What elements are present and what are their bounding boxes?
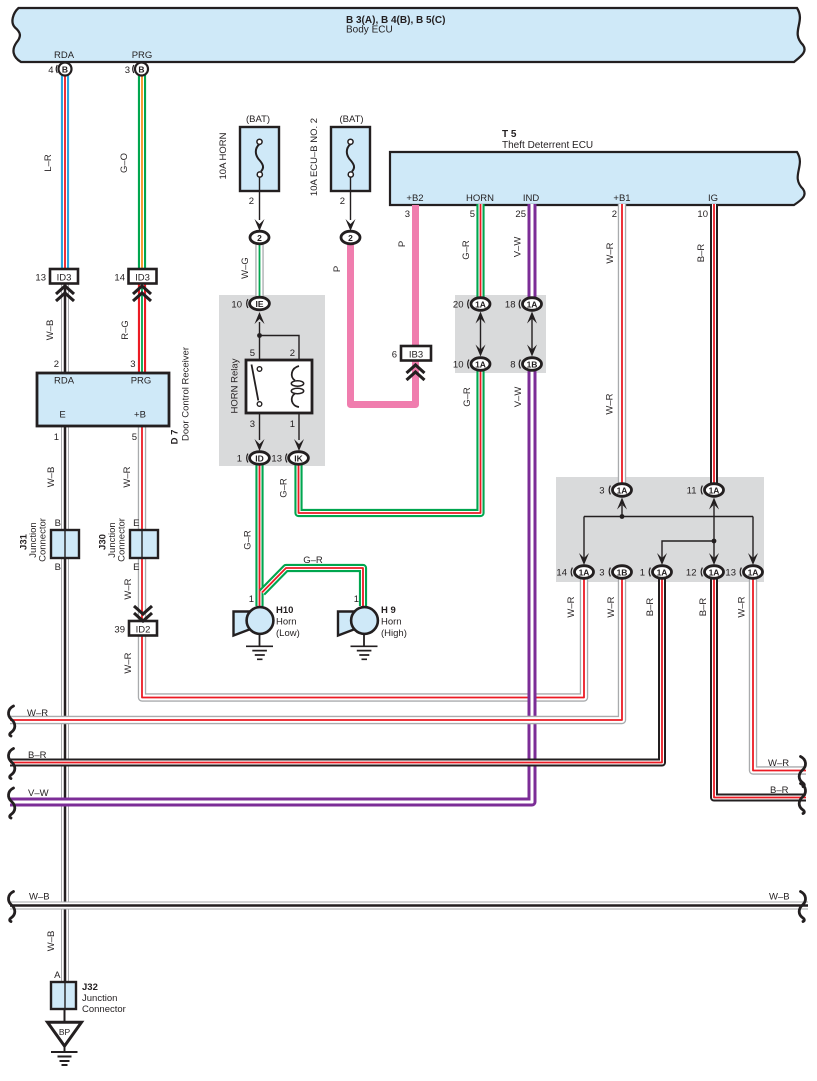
svg-text:2: 2 <box>612 209 617 220</box>
horn H10 body <box>247 607 274 634</box>
svg-text:5: 5 <box>132 432 137 443</box>
svg-text:PRG: PRG <box>132 50 153 61</box>
svg-text:P: P <box>332 266 343 272</box>
svg-text:10: 10 <box>453 360 464 371</box>
relay internal node branch <box>260 336 300 369</box>
svg-text:1B: 1B <box>617 568 628 578</box>
svg-text:RDA: RDA <box>54 376 75 387</box>
svg-text:W–R: W–R <box>123 652 134 673</box>
arrow into fuse1 oval 2 <box>255 219 265 231</box>
svg-text:W–B: W–B <box>769 892 790 903</box>
svg-text:E: E <box>133 562 139 573</box>
horn H9 ground lead <box>363 633 365 646</box>
connector oval 20 1A <box>471 298 490 311</box>
junction 11 1A lead crossing bus to node <box>713 505 715 541</box>
svg-text:ID3: ID3 <box>57 273 72 284</box>
wire G-R (10 1A down, across, up to relay IK) <box>299 368 481 513</box>
svg-text:1: 1 <box>640 568 645 579</box>
svg-text:2: 2 <box>290 348 295 359</box>
svg-text:A: A <box>54 970 61 981</box>
svg-text:2: 2 <box>249 196 254 207</box>
arrow into 8 1B <box>527 345 537 357</box>
svg-text:G–R: G–R <box>461 240 472 260</box>
svg-text:V–W: V–W <box>28 788 49 799</box>
connector box 13 ID3 <box>50 269 78 284</box>
svg-text:1: 1 <box>354 594 359 605</box>
wire L-R (RDA to ID3) <box>61 75 69 270</box>
connector oval 10 1A <box>471 358 490 371</box>
svg-text:W–R: W–R <box>606 596 617 617</box>
svg-text:11: 11 <box>687 486 697 497</box>
svg-text:Connector: Connector <box>38 518 49 562</box>
svg-text:BP: BP <box>59 1027 71 1037</box>
connector oval 2 (fuse HORN) <box>250 231 269 244</box>
junction lead to 13 1A <box>752 517 754 559</box>
svg-text:Horn: Horn <box>276 617 297 628</box>
wire W-R (T5 +B1 pin 2 to 3 1A) <box>618 204 626 486</box>
svg-text:W–R: W–R <box>768 758 789 769</box>
svg-text:W–B: W–B <box>46 931 57 952</box>
svg-text:2: 2 <box>348 233 353 243</box>
svg-text:V–W: V–W <box>513 237 524 258</box>
svg-text:1: 1 <box>249 594 254 605</box>
arrow into 3 1A <box>617 498 627 510</box>
arrow into 1 1A <box>657 553 667 565</box>
wire B-R (12 1A down to right break) <box>714 579 806 798</box>
wire fuse2 pin 2 lead <box>350 180 352 220</box>
svg-text:H10: H10 <box>276 605 293 616</box>
svg-text:IK: IK <box>294 454 303 464</box>
svg-text:13: 13 <box>725 568 736 579</box>
svg-text:IE: IE <box>255 299 263 309</box>
arrow into relay IE <box>255 312 265 324</box>
junction block gray (lower right) <box>556 477 764 582</box>
connector oval 13 IK <box>289 452 309 465</box>
svg-text:Junction: Junction <box>82 993 117 1004</box>
arrow into relay IK <box>294 439 304 451</box>
svg-text:20: 20 <box>453 300 464 311</box>
arrow into 13 1A <box>748 553 758 565</box>
svg-text:J32: J32 <box>82 982 98 993</box>
arrow into 12 1A <box>709 553 719 565</box>
arrow into 18 1A <box>527 312 537 324</box>
svg-text:IND: IND <box>523 193 540 204</box>
svg-text:V–W: V–W <box>513 387 524 408</box>
chevron arrows under 14 ID3 <box>133 286 151 301</box>
relay box <box>246 360 312 413</box>
svg-text:B: B <box>55 562 61 573</box>
ground triangle BP <box>48 1022 82 1046</box>
svg-text:1A: 1A <box>617 486 628 496</box>
connector pin ticks <box>56 65 741 576</box>
svg-text:W–R: W–R <box>605 242 616 263</box>
wire W-B (J32 to BP ground) <box>64 1009 66 1022</box>
svg-text:1A: 1A <box>475 300 486 310</box>
svg-text:1A: 1A <box>709 568 720 578</box>
svg-text:(Low): (Low) <box>276 628 300 639</box>
svg-text:B: B <box>55 518 61 529</box>
svg-text:8: 8 <box>510 360 515 371</box>
svg-text:3: 3 <box>599 568 604 579</box>
svg-text:W–G: W–G <box>240 257 251 279</box>
junction connector J32 border <box>51 982 76 1009</box>
wire W-R (D7 pin 5 through J30, ID2, across to 14 1A) <box>142 426 584 698</box>
fuse 10A HORN box <box>240 127 279 191</box>
svg-text:G–R: G–R <box>462 387 473 407</box>
wire R-G (ID3 to D7 pin 3) <box>138 282 146 374</box>
connector oval 1 ID <box>250 452 270 465</box>
svg-text:W–R: W–R <box>123 578 134 599</box>
relay pin 3 lead <box>259 407 261 440</box>
svg-text:E: E <box>59 410 65 421</box>
svg-text:14: 14 <box>114 273 125 284</box>
wire P (fuse 10A ECU-B to IB3 to T5 +B2) <box>351 205 416 405</box>
junction connector J31 fill <box>51 530 79 558</box>
horn H9 trumpet <box>338 612 357 636</box>
wire W-G (fuse oval 2 to horn relay IE) <box>255 240 263 300</box>
svg-text:G–R: G–R <box>243 530 254 550</box>
svg-text:G–R: G–R <box>279 478 290 498</box>
junction connector J31 border <box>51 530 79 558</box>
connector oval 3 1B <box>613 566 632 579</box>
svg-text:B: B <box>138 65 144 75</box>
svg-text:+B: +B <box>134 410 146 421</box>
wire W-B (D7 pin 1 through J31 to J32) <box>61 426 69 982</box>
svg-text:4: 4 <box>48 65 53 76</box>
svg-text:E: E <box>133 518 139 529</box>
svg-text:L–R: L–R <box>43 154 54 172</box>
svg-text:3: 3 <box>250 419 255 430</box>
svg-text:W–R: W–R <box>737 596 748 617</box>
wire G-R (relay ID to horn H10) <box>255 460 263 606</box>
svg-text:3: 3 <box>130 359 135 370</box>
svg-text:PRG: PRG <box>131 376 152 387</box>
svg-text:B–R: B–R <box>770 785 789 796</box>
arrow into relay ID <box>255 439 265 451</box>
connector oval 1 1A <box>653 566 672 579</box>
wire W-R (13 1A down to right break) <box>753 579 806 771</box>
relay switch blade <box>252 365 259 402</box>
svg-text:IB3: IB3 <box>409 350 423 361</box>
svg-text:D 7: D 7 <box>170 430 181 445</box>
wire V-W (8 1B down to V-W bus, across to left break) <box>10 368 532 802</box>
wire break squiggle right W-R <box>799 757 805 787</box>
svg-text:B–R: B–R <box>698 598 709 617</box>
svg-text:1A: 1A <box>748 568 759 578</box>
svg-text:10: 10 <box>231 300 242 311</box>
svg-text:3: 3 <box>125 65 130 76</box>
chevron arrows under 13 ID3 <box>56 286 74 301</box>
connector circle B pin 3 (PRG) <box>135 63 148 76</box>
arrow into fuse2 oval 2 <box>346 219 356 231</box>
chevron arrows under 6 IB3 <box>407 365 425 380</box>
junction connector J30 fill <box>130 530 158 558</box>
svg-text:RDA: RDA <box>54 50 75 61</box>
connector oval 18 1A <box>523 298 542 311</box>
svg-text:(BAT): (BAT) <box>339 114 363 125</box>
HORN Relay gray block <box>219 295 325 466</box>
junction 3 1A lead to bus <box>621 505 623 517</box>
svg-text:HORN Relay: HORN Relay <box>230 358 241 413</box>
svg-text:+B1: +B1 <box>613 193 630 204</box>
relay pin 1 lead <box>298 405 300 440</box>
svg-text:12: 12 <box>686 568 697 579</box>
svg-text:W–B: W–B <box>46 467 57 488</box>
ground bars BP <box>51 1046 78 1065</box>
junction block gray (near T5) <box>455 295 546 373</box>
arrow into 10 1A <box>476 345 486 357</box>
arrow into 14 1A <box>579 553 589 565</box>
svg-text:Body ECU: Body ECU <box>346 25 393 36</box>
relay switch blade redraw <box>252 365 259 401</box>
wire G-R (branch to horn H9) <box>262 568 363 606</box>
wire G-R (T5 HORN pin 5 to 20 1A) <box>476 204 484 300</box>
junction node branch to 1 1A <box>662 541 714 558</box>
fuse 10A ECU-B NO.2 box <box>331 127 370 191</box>
svg-text:Door Control Receiver: Door Control Receiver <box>181 347 192 441</box>
connector oval 2 (fuse ECU-B) <box>341 231 360 244</box>
chevron arrows above 39 ID2 <box>134 606 152 621</box>
svg-text:14: 14 <box>556 568 567 579</box>
svg-text:H 9: H 9 <box>381 605 396 616</box>
svg-text:W–R: W–R <box>122 466 133 487</box>
Body ECU banner <box>12 8 804 62</box>
connector oval 14 1A <box>575 566 594 579</box>
wire B-R (T5 IG pin 10 to 11 1A) <box>710 204 718 486</box>
junction internal bus <box>584 516 753 518</box>
svg-text:W–R: W–R <box>27 708 48 719</box>
connector box 6 IB3 <box>401 346 431 361</box>
relay IE lead <box>259 322 261 369</box>
svg-text:1B: 1B <box>527 360 538 370</box>
svg-text:2: 2 <box>257 233 262 243</box>
svg-text:10A HORN: 10A HORN <box>218 132 229 179</box>
connector oval 13 1A <box>744 566 763 579</box>
connector oval 12 1A <box>705 566 724 579</box>
svg-text:3: 3 <box>599 486 604 497</box>
svg-text:W–B: W–B <box>29 892 50 903</box>
svg-text:1: 1 <box>290 419 295 430</box>
svg-text:Horn: Horn <box>381 617 402 628</box>
svg-text:10: 10 <box>697 209 708 220</box>
wire G-O (PRG to ID3) <box>138 75 146 270</box>
connector oval 11 1A <box>705 484 724 497</box>
svg-text:25: 25 <box>515 209 526 220</box>
svg-text:10A ECU–B NO. 2: 10A ECU–B NO. 2 <box>309 118 320 196</box>
svg-text:1A: 1A <box>657 568 668 578</box>
ground bars horn H9 <box>351 646 378 659</box>
svg-text:(BAT): (BAT) <box>246 114 270 125</box>
connector box 14 ID3 <box>129 269 157 284</box>
svg-text:B: B <box>62 65 68 75</box>
arrow into 11 1A <box>709 498 719 510</box>
svg-text:Connector: Connector <box>82 1004 126 1015</box>
svg-text:P: P <box>397 241 408 247</box>
connector oval 8 1B <box>523 358 542 371</box>
ground bars horn H10 <box>246 646 273 659</box>
fuse 10A ECU-B element <box>347 144 354 172</box>
wire fuse1 pin 2 lead <box>259 180 261 220</box>
wire W-B bus (full width) <box>10 902 808 910</box>
Theft Deterrent ECU banner T5 <box>390 152 805 205</box>
svg-text:2: 2 <box>340 196 345 207</box>
wire break squiggle left W-R bus <box>9 706 15 736</box>
connector oval 10 IE <box>250 297 270 310</box>
svg-text:ID: ID <box>255 454 264 464</box>
svg-text:1A: 1A <box>579 568 590 578</box>
relay coil <box>292 366 299 381</box>
svg-text:HORN: HORN <box>466 193 494 204</box>
wire W-B (ID3 to D7 pin 2) <box>61 282 69 374</box>
junction dot (relay coil node) <box>257 333 262 338</box>
junction connector J30 border <box>130 530 158 558</box>
svg-text:1A: 1A <box>527 300 538 310</box>
svg-text:6: 6 <box>392 350 397 361</box>
connector box 39 ID2 <box>129 621 157 636</box>
svg-text:13: 13 <box>35 273 46 284</box>
svg-text:Theft Deterrent ECU: Theft Deterrent ECU <box>502 140 593 151</box>
svg-text:(High): (High) <box>381 628 407 639</box>
fuse 10A HORN element <box>256 144 263 172</box>
svg-text:W–R: W–R <box>605 393 616 414</box>
svg-text:ID2: ID2 <box>136 625 151 636</box>
junction connector J32 fill <box>51 982 76 1009</box>
svg-text:1A: 1A <box>709 486 720 496</box>
wire break squiggle left B-R bus <box>9 749 15 779</box>
svg-text:W–B: W–B <box>45 320 56 341</box>
svg-text:5: 5 <box>470 209 475 220</box>
junction lead to 12 1A <box>713 541 715 558</box>
svg-text:G–R: G–R <box>303 555 323 566</box>
relay switch contacts <box>257 367 262 372</box>
svg-text:T 5: T 5 <box>502 129 517 140</box>
svg-text:1: 1 <box>237 454 242 465</box>
junction 18 1A to 8 1B link <box>531 317 533 352</box>
wire V-W (T5 IND pin 25 to 18 1A) <box>528 204 537 300</box>
junction dot (3 1A bus node) <box>620 514 625 519</box>
horn H10 ground lead <box>259 633 261 646</box>
svg-text:13: 13 <box>271 454 282 465</box>
svg-text:18: 18 <box>505 300 516 311</box>
svg-text:ID3: ID3 <box>135 273 150 284</box>
horn H9 body <box>351 607 378 634</box>
arrow into 20 1A <box>476 312 486 324</box>
wire break squiggle left V-W bus <box>9 788 15 818</box>
svg-text:B–R: B–R <box>28 750 47 761</box>
svg-text:B–R: B–R <box>696 244 707 263</box>
svg-text:R–G: R–G <box>120 320 131 340</box>
svg-text:G–O: G–O <box>119 153 130 173</box>
svg-text:39: 39 <box>114 625 125 636</box>
svg-text:1: 1 <box>54 432 59 443</box>
svg-text:W–R: W–R <box>566 596 577 617</box>
svg-text:B–R: B–R <box>645 598 656 617</box>
junction dot (11 1A node) <box>712 539 717 544</box>
D7 Door Control Receiver box <box>37 373 169 426</box>
horn H10 trumpet <box>234 612 253 636</box>
connector oval 3 1A <box>613 484 632 497</box>
svg-text:3: 3 <box>405 209 410 220</box>
svg-text:1A: 1A <box>475 360 486 370</box>
svg-text:Connector: Connector <box>117 518 128 562</box>
wire break squiggle left W-B bus <box>9 892 15 922</box>
wire break squiggle right B-R <box>799 784 805 814</box>
svg-text:IG: IG <box>708 193 718 204</box>
svg-text:2: 2 <box>54 359 59 370</box>
wire W-R bus (left break to 3 1B) <box>10 579 622 720</box>
junction 20 1A to 10 1A link <box>480 317 482 352</box>
junction lead to 14 1A <box>583 517 585 559</box>
svg-text:+B2: +B2 <box>406 193 423 204</box>
svg-text:5: 5 <box>250 348 255 359</box>
connector circle B pin 4 (RDA) <box>59 63 72 76</box>
wire break squiggle right W-B bus <box>799 892 805 922</box>
wire B-R bus (left break to 1 1A) <box>10 579 662 763</box>
